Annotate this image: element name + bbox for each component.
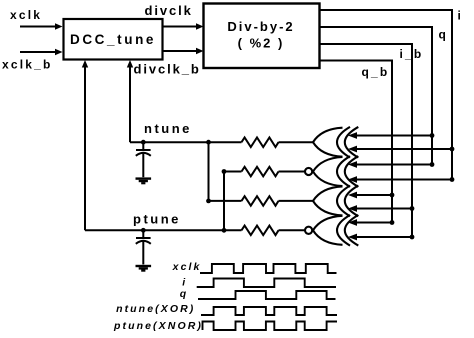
wire net q — [320, 27, 433, 165]
wire divclk — [163, 26, 198, 28]
svg-text:( %2 ): ( %2 ) — [238, 36, 285, 51]
wire tap q to U4 input A — [348, 161, 434, 168]
capacitor C1 — [136, 140, 151, 177]
waveform trace i — [197, 279, 336, 288]
wire tap i to U4 input B — [348, 176, 454, 183]
svg-text:DCC_tune: DCC_tune — [70, 32, 156, 47]
ground GND1 — [136, 179, 152, 184]
wire tap i to U3 input B — [348, 146, 454, 153]
arrow into Div pin divclk — [196, 23, 204, 29]
resistor R3 — [242, 196, 279, 206]
svg-text:i: i — [182, 276, 187, 288]
node dot row2 corner — [222, 169, 227, 174]
svg-text:i: i — [458, 8, 464, 22]
wire xclk input — [20, 26, 56, 28]
ground GND2 — [136, 266, 152, 271]
svg-text:i_b: i_b — [400, 47, 424, 61]
node dot ntune branch — [206, 140, 211, 145]
arrow into DCC pin xclk — [55, 23, 63, 29]
resistor R1 — [242, 138, 279, 148]
wire net i — [320, 10, 453, 180]
wire tap i_b to U6 input B — [348, 234, 414, 241]
xor gate U5 — [313, 186, 358, 217]
waveform trace xclk — [200, 264, 337, 273]
svg-text:ntune(XOR): ntune(XOR) — [116, 303, 195, 315]
svg-text:xclk: xclk — [10, 8, 42, 22]
capacitor C2 — [136, 228, 151, 264]
block U1 DCC_tune — [64, 19, 163, 60]
wire ntune net — [130, 141, 313, 143]
arrow into DCC pin xclk_b — [55, 49, 63, 55]
node dot row3 corner — [206, 199, 211, 204]
wire tap q to U3 input A — [348, 132, 434, 139]
svg-text:divclk: divclk — [145, 3, 193, 18]
wire xclk_b input — [20, 51, 56, 53]
wire tap q_b to U5 input A — [348, 192, 394, 199]
resistor R4 — [242, 226, 279, 236]
waveform trace ntune XOR — [201, 307, 337, 315]
arrow into Div pin divclk_b — [196, 48, 204, 54]
wire tap i_b to U5 input B — [348, 205, 414, 212]
xnor gate U4 — [305, 156, 358, 187]
wire net q_b — [320, 61, 393, 223]
wire divclk_b — [163, 50, 198, 52]
arrow into DCC bottom pin ptune — [82, 60, 88, 68]
arrow into DCC bottom pin ntune — [127, 60, 133, 68]
svg-text:xclk: xclk — [172, 261, 202, 273]
svg-text:ptune(XNOR): ptune(XNOR) — [113, 320, 203, 332]
wire net i_b — [320, 44, 413, 237]
node dot ptune branch — [222, 228, 227, 233]
wire feedback ntune to DCC — [129, 66, 131, 142]
xnor gate U6 — [305, 215, 358, 246]
svg-text:q: q — [439, 28, 449, 42]
wire row3 XOR out — [209, 200, 314, 202]
wire branch ntune to row3 — [208, 142, 210, 201]
svg-text:q: q — [180, 288, 189, 300]
xor gate U3 — [313, 127, 358, 158]
wire tap q_b to U6 input A — [348, 219, 394, 226]
wire feedback ptune to DCC — [84, 66, 86, 230]
svg-text:ptune: ptune — [133, 212, 181, 227]
block U2 Div-by-2 — [204, 4, 320, 69]
svg-text:q_b: q_b — [362, 65, 390, 79]
svg-text:ntune: ntune — [144, 121, 192, 136]
resistor R2 — [242, 167, 279, 177]
svg-text:divclk_b: divclk_b — [134, 62, 201, 77]
svg-text:Div-by-2: Div-by-2 — [227, 19, 294, 34]
wire ptune net — [85, 229, 305, 231]
wire branch ptune to row2 — [223, 172, 225, 231]
wire row2 XNOR out to ptune branch — [224, 171, 305, 173]
waveform trace q — [198, 291, 336, 299]
waveform trace ptune XNOR — [203, 322, 338, 331]
svg-text:xclk_b: xclk_b — [2, 57, 53, 71]
